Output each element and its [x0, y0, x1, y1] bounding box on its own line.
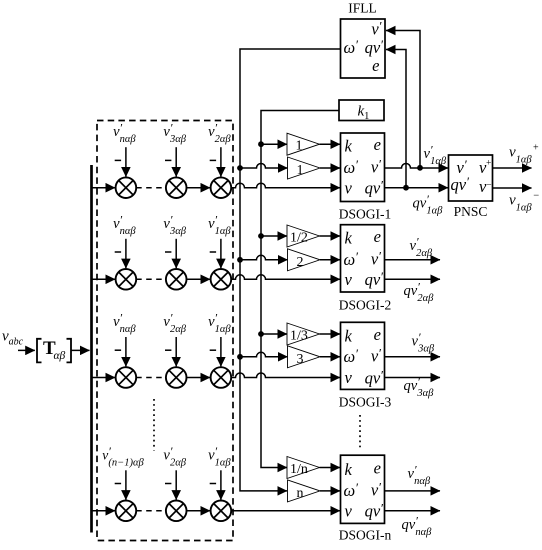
- wire v-prime feedback from DSOGI-1 output up to IFLL: [386, 31, 420, 168]
- svg-text:vabc: vabc: [2, 329, 24, 348]
- ellipsis dots between DSOGI-3 and DSOGI-n: [359, 415, 361, 450]
- gain triangle 1/2 of DSOGI-2: [287, 225, 320, 247]
- svg-text:PNSC: PNSC: [454, 204, 488, 219]
- label v_1ab negative: [509, 190, 539, 213]
- wire qv-prime output of DSOGI-3: [385, 377, 441, 379]
- wire input bus to multiplier M31: [92, 377, 116, 379]
- label v-prime 3αβ with subtraction arrow into M22: [163, 212, 186, 268]
- wire omega junction to gain 2 of DSOGI-2: [240, 255, 288, 260]
- block DSOGI-3 (dual second-order generalized integrator): [341, 322, 385, 389]
- svg-text:DSOGI-2: DSOGI-2: [339, 297, 392, 312]
- svg-text:v1αβ: v1αβ: [509, 145, 532, 166]
- multiplier M42: [166, 501, 187, 522]
- svg-text:v′: v′: [371, 248, 381, 268]
- multiplier M32: [166, 367, 187, 388]
- label v_1ab positive: [509, 142, 539, 165]
- svg-text:k: k: [345, 460, 353, 479]
- svg-text:v′1αβ: v′1αβ: [208, 311, 231, 336]
- wire k1 bus (k1 output to gain triangles and DSOGI-n k input): [261, 111, 339, 468]
- wire input bus to multiplier M11: [92, 187, 116, 189]
- gain triangle 1/3 of DSOGI-3: [287, 323, 320, 345]
- svg-text:DSOGI-1: DSOGI-1: [339, 207, 392, 222]
- svg-text:e: e: [374, 227, 381, 246]
- svg-text:v: v: [345, 270, 353, 289]
- svg-text:v′3αβ: v′3αβ: [412, 330, 435, 355]
- label v-prime nαβ with subtraction arrow into M31: [113, 311, 136, 367]
- svg-text:e: e: [374, 135, 381, 154]
- svg-text:v′3αβ: v′3αβ: [163, 212, 186, 237]
- wire v_abc to Tab transform: [18, 349, 35, 351]
- svg-text:ω′: ω′: [344, 37, 359, 57]
- svg-text:qv′1αβ: qv′1αβ: [413, 192, 444, 217]
- svg-text:v′1αβ: v′1αβ: [208, 444, 231, 469]
- svg-text:2: 2: [297, 255, 304, 270]
- svg-text:k1: k1: [358, 104, 370, 123]
- svg-text:1: 1: [297, 163, 304, 178]
- svg-text:v: v: [345, 502, 353, 521]
- wire omega junction to gain 3 of DSOGI-3: [240, 352, 288, 357]
- svg-text:v′: v′: [371, 157, 381, 177]
- svg-text:v′2αβ: v′2αβ: [410, 235, 433, 260]
- multiplier M22: [166, 269, 187, 290]
- svg-text:qv′: qv′: [451, 174, 470, 194]
- gain triangle 3 of DSOGI-3: [288, 346, 321, 368]
- wire M22 to M23: [187, 278, 211, 280]
- label v-prime 2αβ with subtraction arrow into M32: [163, 311, 186, 367]
- junction omega bus to DSOGI-3: [237, 354, 243, 360]
- junction omega bus to DSOGI-2: [237, 257, 243, 263]
- wire k1 junction to gain 1/2 of DSOGI-2: [261, 235, 287, 237]
- dashed box (cross feedback harmonic cancellation network): [97, 121, 233, 541]
- svg-text:−: −: [486, 181, 491, 191]
- svg-text:1/2: 1/2: [290, 231, 308, 246]
- multiplier M43: [211, 501, 232, 522]
- svg-text:−: −: [533, 190, 539, 201]
- svg-text:ω′: ω′: [344, 480, 359, 500]
- wire gain 3 to omega input of DSOGI-3: [320, 356, 340, 358]
- wire gain 1/1 to k input of DSOGI-1: [320, 143, 341, 145]
- svg-text:ω′: ω′: [344, 157, 359, 177]
- svg-text:n: n: [297, 486, 304, 501]
- wire multiplier row 3 output to v input of DSOGI-3: [231, 373, 340, 377]
- svg-text:v′: v′: [371, 479, 381, 499]
- svg-text:e: e: [374, 325, 381, 344]
- svg-text:v′2αβ: v′2αβ: [163, 444, 186, 469]
- ellipsis dots in cancellation array: [153, 399, 155, 451]
- svg-text:k: k: [345, 229, 353, 248]
- svg-text:v′(n−1)αβ: v′(n−1)αβ: [102, 444, 144, 469]
- wire qv-prime output of DSOGI-1 to PNSC: [385, 187, 449, 189]
- svg-text:v′nαβ: v′nαβ: [113, 311, 136, 336]
- block IFLL (frequency-locked loop): [341, 19, 386, 79]
- svg-text:v′nαβ: v′nαβ: [408, 463, 431, 488]
- block DSOGI-1 (dual second-order generalized integrator): [341, 133, 385, 202]
- label v-prime 2αβ with subtraction arrow into M42: [163, 444, 186, 500]
- svg-text:qv′: qv′: [365, 37, 384, 57]
- svg-text:ω′: ω′: [344, 249, 359, 269]
- wire qv-prime output of DSOGI-2: [385, 278, 441, 280]
- wire input bus to multiplier M41: [92, 510, 116, 512]
- junction k1 bus to DSOGI-3: [258, 331, 264, 337]
- wire gain 1/3 to k input of DSOGI-3: [320, 333, 341, 335]
- junction k1 bus to DSOGI-2: [258, 233, 264, 239]
- wire gain 2 to omega input of DSOGI-2: [320, 259, 340, 261]
- svg-text:qv′: qv′: [365, 269, 384, 289]
- label v-prime 1αβ with subtraction arrow into M43: [208, 444, 231, 500]
- svg-text:1: 1: [296, 139, 303, 154]
- svg-text:v′nαβ: v′nαβ: [113, 212, 136, 237]
- svg-text:3: 3: [297, 352, 304, 367]
- wire input bus to multiplier M21: [92, 278, 116, 280]
- dashed wire M41 to M42: [136, 510, 165, 512]
- wire gain 1 to omega input of DSOGI-1: [320, 167, 340, 169]
- svg-text:v′1αβ: v′1αβ: [424, 143, 447, 168]
- gain triangle n of DSOGI-n: [288, 480, 321, 502]
- junction v-prime feedback: [417, 165, 423, 171]
- svg-text:DSOGI-n: DSOGI-n: [339, 527, 392, 542]
- wire v-prime output of DSOGI-2: [385, 259, 441, 261]
- transform block T-alpha-beta: [37, 338, 71, 363]
- wire qv-prime output of DSOGI-n: [385, 510, 441, 512]
- wire gain 1/2 to k input of DSOGI-2: [320, 235, 341, 237]
- gain triangle 1 of DSOGI-1: [288, 157, 321, 179]
- wire gain 1/n to k input of DSOGI-n: [320, 467, 341, 469]
- label v-prime nαβ with subtraction arrow into M21: [113, 212, 136, 268]
- wire v-prime output of DSOGI-3: [385, 356, 441, 358]
- svg-text:+: +: [486, 159, 491, 169]
- wire omega junction to gain 1 of DSOGI-1: [240, 164, 288, 169]
- wire qv-prime feedback from DSOGI-1 output up to IFLL: [386, 50, 406, 188]
- multiplier M11: [116, 177, 137, 198]
- wire M42 to M43: [187, 510, 211, 512]
- svg-text:qv′: qv′: [365, 367, 384, 387]
- svg-text:qv′2αβ: qv′2αβ: [404, 280, 435, 305]
- dashed wire M21 to M22: [136, 278, 165, 280]
- svg-text:v′3αβ: v′3αβ: [163, 121, 186, 146]
- block k1 (gain): [339, 100, 384, 122]
- svg-text:qv′: qv′: [365, 178, 384, 198]
- multiplier M12: [166, 177, 187, 198]
- svg-text:ω′: ω′: [344, 346, 359, 366]
- svg-text:DSOGI-3: DSOGI-3: [339, 395, 392, 410]
- svg-text:v′1αβ: v′1αβ: [208, 212, 231, 237]
- wire M32 to M33: [187, 377, 211, 379]
- label v-prime 2αβ with subtraction arrow into M13: [208, 121, 231, 177]
- multiplier M21: [116, 269, 137, 290]
- label v-prime nαβ with subtraction arrow into M11: [113, 121, 136, 177]
- gain triangle 1/n of DSOGI-n: [287, 457, 320, 479]
- multiplier M41: [116, 501, 137, 522]
- svg-text:v′2αβ: v′2αβ: [208, 121, 231, 146]
- svg-text:qv′: qv′: [365, 501, 384, 521]
- svg-text:v′: v′: [371, 345, 381, 365]
- multiplier M23: [211, 269, 232, 290]
- dashed wire M11 to M12: [136, 187, 165, 189]
- svg-text:αβ: αβ: [54, 350, 66, 362]
- dashed wire M31 to M32: [136, 377, 165, 379]
- junction omega bus to DSOGI-1: [237, 165, 243, 171]
- svg-text:v′: v′: [371, 19, 381, 39]
- label v-prime 3αβ with subtraction arrow into M12: [163, 121, 186, 177]
- wire negative sequence output: [493, 187, 532, 189]
- multiplier M13: [211, 177, 232, 198]
- svg-text:qv′nαβ: qv′nαβ: [402, 514, 433, 539]
- input bus (v_alpha-beta vertical bus): [90, 165, 93, 533]
- wire multiplier row 1 output to v input of DSOGI-1: [231, 183, 340, 188]
- junction k1 bus to DSOGI-1: [258, 141, 264, 147]
- wire gain n to omega input of DSOGI-n: [320, 490, 340, 492]
- wire k1 junction to gain 1/3 of DSOGI-3: [261, 333, 287, 335]
- label v-prime 1αβ with subtraction arrow into M23: [208, 212, 231, 268]
- multiplier M33: [211, 367, 232, 388]
- gain triangle 2 of DSOGI-2: [288, 249, 321, 271]
- gain triangle 1/1 of DSOGI-1: [287, 133, 320, 155]
- svg-text:+: +: [533, 142, 539, 153]
- block PNSC (positive negative sequence calculator): [449, 155, 493, 201]
- svg-text:IFLL: IFLL: [348, 1, 377, 16]
- svg-text:1/n: 1/n: [290, 462, 308, 477]
- svg-text:v: v: [345, 368, 353, 387]
- svg-text:e: e: [372, 56, 379, 75]
- wire v-prime output of DSOGI-1 to PNSC: [385, 164, 449, 169]
- wire multiplier row 4 output to v input of DSOGI-n: [231, 510, 340, 512]
- wire v-prime output of DSOGI-n: [385, 490, 441, 492]
- wire M12 to M13: [187, 187, 211, 189]
- svg-text:k: k: [345, 137, 353, 156]
- svg-text:k: k: [345, 327, 353, 346]
- svg-text:1/3: 1/3: [290, 329, 308, 344]
- block DSOGI-2 (dual second-order generalized integrator): [341, 225, 385, 292]
- svg-text:v: v: [345, 178, 353, 197]
- multiplier M31: [116, 367, 137, 388]
- svg-text:e: e: [374, 459, 381, 478]
- wire Tab to input bus: [72, 349, 90, 351]
- label v-prime (n−1)αβ with subtraction arrow into M41: [102, 444, 144, 500]
- svg-text:v′2αβ: v′2αβ: [163, 311, 186, 336]
- wire multiplier row 2 output to v input of DSOGI-2: [231, 275, 340, 280]
- wire omega-prime bus (IFLL output to harmonic gain triangles and DSOGI-n omega input): [240, 49, 341, 491]
- wire positive sequence output: [493, 167, 532, 169]
- svg-text:v1αβ: v1αβ: [509, 192, 532, 213]
- wire k1 junction to gain 1/1 of DSOGI-1: [261, 143, 287, 145]
- svg-text:v′nαβ: v′nαβ: [113, 121, 136, 146]
- label v-prime 1αβ with subtraction arrow into M33: [208, 311, 231, 367]
- block DSOGI-n (dual second-order generalized integrator): [341, 455, 385, 523]
- junction qv-prime feedback: [403, 185, 409, 191]
